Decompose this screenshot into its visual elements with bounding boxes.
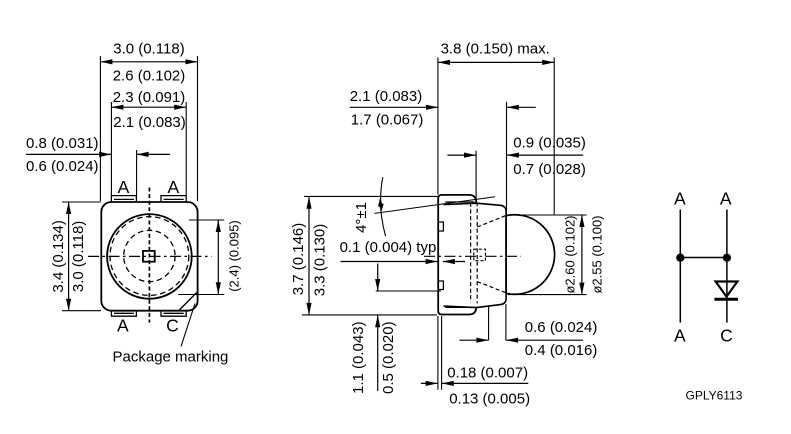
package body top view: [101, 202, 197, 311]
dim 0.1 (0.004) typ: [340, 239, 465, 264]
LED chip square: [143, 251, 155, 262]
diode D1: [714, 282, 738, 300]
junction node left: [676, 254, 684, 262]
svg-text:3.0 (0.118): 3.0 (0.118): [70, 221, 87, 292]
pin label A top-right: [167, 177, 179, 197]
svg-text:0.4 (0.016): 0.4 (0.016): [525, 342, 598, 359]
dim 2.1 (0.083) / 1.7 (0.067): [350, 88, 536, 129]
dim 0.6 (0.024) / 0.4 (0.016): [460, 304, 598, 359]
lead latch tab upper: [439, 222, 444, 231]
dim 2.6 (0.102): [113, 68, 186, 85]
svg-text:A: A: [674, 189, 686, 209]
svg-text:1.7 (0.067): 1.7 (0.067): [351, 112, 424, 129]
reflector cone dashed top: [477, 216, 505, 227]
top pad pin 2: [161, 196, 186, 203]
dim 0.9 (0.035) / 0.7 (0.028): [447, 102, 585, 215]
dim 3.4 (0.134) / 3.0 (0.118) height: [50, 202, 101, 311]
vertical centerline: [148, 188, 150, 323]
svg-text:3.3 (0.130): 3.3 (0.130): [312, 224, 329, 297]
svg-text:0.18 (0.007): 0.18 (0.007): [447, 365, 528, 382]
side view dome lens: [506, 215, 554, 295]
svg-text:0.6 (0.024): 0.6 (0.024): [26, 158, 99, 175]
pin label C bottom-right: [166, 315, 179, 335]
svg-text:(2.4) (0.095): (2.4) (0.095): [226, 220, 241, 292]
dim diameter 2.60 / 2.55 lens: [508, 215, 605, 295]
svg-text:C: C: [720, 325, 733, 345]
svg-text:A: A: [117, 315, 129, 335]
svg-text:A: A: [167, 177, 179, 197]
lens dashed circle inner: [124, 230, 175, 281]
side view centerline: [424, 255, 521, 257]
svg-text:A: A: [118, 177, 130, 197]
wire bridge: [680, 257, 727, 259]
pin label A top-left: [118, 177, 130, 197]
svg-text:Package marking: Package marking: [113, 349, 229, 366]
part number GPLY6113: [686, 389, 743, 403]
dim 1.1 (0.043) / 0.5 (0.020) standoff: [350, 264, 441, 394]
svg-text:2.1 (0.083): 2.1 (0.083): [113, 114, 186, 131]
label Package marking: [113, 349, 229, 366]
svg-text:3.7 (0.146): 3.7 (0.146): [290, 223, 307, 296]
top pad pin 1: [111, 196, 136, 203]
svg-text:3.0 (0.118): 3.0 (0.118): [113, 41, 184, 58]
svg-text:0.13 (0.005): 0.13 (0.005): [449, 391, 530, 408]
dim 4 degree draft angle: [304, 177, 495, 236]
svg-text:3.8 (0.150) max.: 3.8 (0.150) max.: [441, 41, 550, 58]
wire anode right upper: [726, 210, 728, 323]
wire anode left: [679, 210, 681, 323]
side view lead outer profile: [438, 195, 476, 315]
dim 3.8 (0.150) max: [438, 41, 554, 215]
leader line package marking: [181, 304, 195, 347]
svg-text:A: A: [674, 325, 686, 345]
svg-text:3.4 (0.134): 3.4 (0.134): [50, 220, 67, 293]
svg-text:GPLY6113: GPLY6113: [686, 389, 743, 403]
chamfer corner (package marking): [179, 293, 197, 311]
reflector cone dashed bottom: [477, 282, 505, 293]
svg-text:2.6 (0.102): 2.6 (0.102): [113, 68, 186, 85]
dim 0.8 (0.031) / 0.6 (0.024) pad width: [26, 135, 170, 195]
lens outer circle: [107, 214, 192, 299]
terminal label C bottom: [720, 325, 733, 345]
svg-text:0.6 (0.024): 0.6 (0.024): [525, 319, 598, 336]
svg-text:0.9 (0.035): 0.9 (0.035): [513, 134, 586, 151]
svg-text:A: A: [720, 189, 732, 209]
dim (2.4) (0.095) lens: [178, 220, 241, 295]
svg-text:ø2.60 (0.102): ø2.60 (0.102): [563, 215, 578, 293]
svg-text:4°±1: 4°±1: [353, 202, 370, 233]
svg-text:2.3 (0.091): 2.3 (0.091): [113, 89, 186, 106]
terminal label A top-right: [720, 189, 732, 209]
lead latch tab lower: [439, 281, 444, 290]
horizontal centerline: [88, 255, 212, 257]
dim 3.7 (0.146) / 3.3 (0.130): [290, 197, 437, 315]
dim 2.3 (0.091) / 2.1 (0.083) pad span: [111, 89, 186, 195]
lens dashed circle outer: [110, 217, 189, 296]
terminal label A bottom: [674, 325, 686, 345]
bottom pad pin C: [161, 310, 186, 316]
svg-text:C: C: [166, 315, 179, 335]
hidden edge dashed line 1: [470, 203, 472, 302]
LED chip dashed square side view: [474, 249, 486, 261]
hidden edge dashed line 2: [476, 202, 478, 303]
svg-text:1.1 (0.043): 1.1 (0.043): [350, 321, 367, 394]
junction node right: [723, 254, 731, 262]
svg-text:0.1 (0.004) typ: 0.1 (0.004) typ: [340, 239, 437, 256]
dim 3.0 (0.118) width: [100, 41, 197, 202]
dim 0.18 (0.007) / 0.13 (0.005) lead thickness: [421, 316, 530, 408]
svg-text:0.7 (0.028): 0.7 (0.028): [513, 161, 586, 178]
side view body outline: [444, 203, 507, 307]
bottom pad pin A: [111, 310, 136, 316]
pin label A bottom-left: [117, 315, 129, 335]
terminal label A top-left: [674, 189, 686, 209]
svg-text:2.1 (0.083): 2.1 (0.083): [350, 88, 423, 105]
svg-text:0.8 (0.031): 0.8 (0.031): [26, 135, 99, 152]
svg-text:ø2.55 (0.100): ø2.55 (0.100): [590, 215, 605, 293]
side view lead inner profile top: [445, 201, 474, 203]
side view lead inner profile bottom: [445, 306, 474, 308]
svg-text:0.5 (0.020): 0.5 (0.020): [380, 321, 397, 394]
